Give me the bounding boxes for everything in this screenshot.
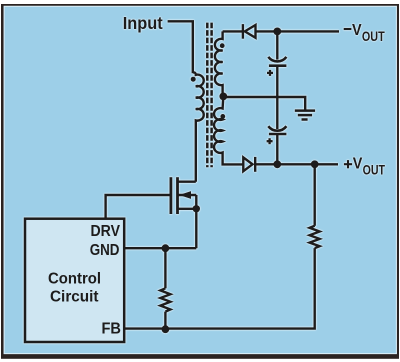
MOSFET Q1 drain stub <box>178 180 196 182</box>
junction dot GND/R2 <box>162 244 170 252</box>
ground rail (center tap to ground) <box>223 97 305 110</box>
junction dot FB/R2 <box>162 325 170 333</box>
diode D2 cathode bar <box>254 157 256 172</box>
wire GND junction down to resistor R2 <box>164 248 166 288</box>
wire C1 to ground rail <box>276 66 278 98</box>
svg-text:Input: Input <box>123 13 163 33</box>
svg-text:OUT: OUT <box>362 29 385 44</box>
wire -Vout rail to capacitor C1 <box>276 31 278 59</box>
center tap junction dot <box>219 93 227 101</box>
junction dot -Vout rail <box>273 28 281 36</box>
GND rail <box>124 247 196 249</box>
wire C2 to +Vout rail <box>276 134 278 164</box>
MOSFET source wire to GND rail <box>195 195 197 248</box>
capacitor C1 curved plate <box>268 57 286 62</box>
+Vout label <box>344 160 352 168</box>
transformer T1 primary winding <box>193 72 204 181</box>
bottom secondary phase dot <box>220 114 225 119</box>
wire R1 down to FB rail <box>124 248 315 329</box>
-Vout label <box>344 28 352 30</box>
junction dot MOSFET source <box>193 205 200 212</box>
resistor R2 <box>160 288 170 311</box>
svg-text:OUT: OUT <box>363 162 386 177</box>
MOSFET Q1 channel bar <box>176 177 179 214</box>
MOSFET Q1 source stub <box>178 208 197 210</box>
svg-text:V: V <box>353 156 363 173</box>
diode D2 triangle <box>243 157 252 171</box>
bottom secondary winding <box>214 96 243 164</box>
svg-text:FB: FB <box>102 321 122 338</box>
control circuit box <box>25 219 124 342</box>
ground symbol <box>295 111 315 120</box>
capacitor C2 plus sign <box>267 138 273 144</box>
MOSFET Q1 body stub <box>178 194 197 196</box>
gate wire from DRV <box>106 195 171 218</box>
capacitor C2 curved plate <box>268 126 286 131</box>
junction dot C2/+Vout <box>273 160 281 168</box>
capacitor C1 flat plate <box>269 64 287 67</box>
junction dot R1/+Vout <box>311 160 319 168</box>
wire top rail to diode D1 <box>223 30 243 32</box>
MOSFET Q1 gate bar <box>169 177 172 214</box>
svg-text:V: V <box>352 22 362 39</box>
wire input to primary <box>168 21 193 73</box>
transformer core <box>206 21 209 167</box>
top secondary phase dot <box>220 43 225 48</box>
MOSFET body arrow <box>179 191 191 199</box>
wire D2 to +Vout <box>255 163 338 165</box>
svg-text:Control: Control <box>48 270 101 287</box>
svg-text:GND: GND <box>90 242 120 259</box>
wire D1 to -Vout <box>256 30 339 32</box>
capacitor C2 flat plate <box>269 133 287 136</box>
primary phase dot <box>191 77 196 82</box>
top secondary winding <box>215 31 223 96</box>
svg-text:Circuit: Circuit <box>50 288 99 305</box>
diode D1 cathode bar <box>242 24 244 39</box>
svg-text:DRV: DRV <box>91 223 121 240</box>
wire +Vout junction down to resistor R1 <box>314 164 316 226</box>
diode D1 triangle <box>245 25 256 38</box>
resistor R1 <box>310 226 320 248</box>
wire R2 down to FB rail <box>164 312 166 329</box>
wire ground rail to capacitor C2 <box>276 98 278 129</box>
capacitor C1 plus sign <box>267 70 273 76</box>
